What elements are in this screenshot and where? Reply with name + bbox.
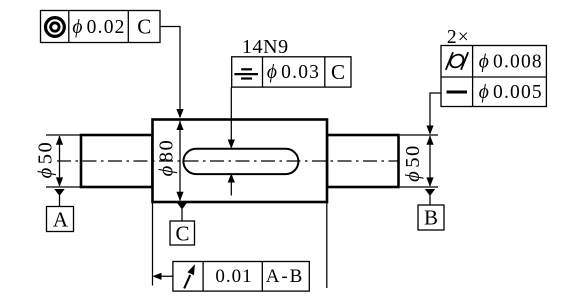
shaft left journal outline [81,135,153,187]
feature control frame 4 (circular runout) [173,262,309,292]
feature control frame 1 (concentricity) [41,11,161,43]
right φ50 dimension extension lines [400,134,438,136]
shaft center section outline [153,120,328,203]
datum C symbol [177,203,187,210]
cylindricity symbol [446,52,468,70]
svg-text:C: C [331,60,345,84]
keyway slot [183,149,298,174]
left φ50 dimension extension lines [46,134,81,136]
feature control frame 3 (cylindricity / straightness stacked) [441,46,546,107]
svg-text:14N9: 14N9 [242,36,289,58]
circular runout symbol [184,275,190,288]
svg-text:ϕ0.03: ϕ0.03 [267,62,320,83]
φ80 dimension line [179,121,181,201]
symmetry symbol [234,69,258,78]
right extension line below center section [326,203,328,288]
left extension line below center section [152,203,154,286]
svg-text:ϕ50: ϕ50 [402,144,424,182]
svg-text:B: B [424,206,438,230]
datum B symbol [425,189,435,196]
leader from frame 3 to right journal [430,93,441,134]
shaft right journal outline [327,135,399,187]
svg-text:A: A [53,208,69,232]
svg-text:ϕ80: ϕ80 [155,139,177,177]
leader from frame 1 to φ80 top edge [160,27,180,118]
keyway lower witness arrow [230,175,232,196]
svg-text:ϕ0.008: ϕ0.008 [479,52,543,73]
datum A symbol [54,189,64,196]
svg-text:C: C [175,222,189,246]
left φ50 dimension line [59,136,61,186]
svg-text:C: C [137,15,151,39]
svg-text:A-B: A-B [266,266,304,287]
svg-text:ϕ0.02: ϕ0.02 [72,17,125,38]
svg-text:ϕ0.005: ϕ0.005 [479,82,543,103]
centerline [57,160,400,162]
svg-text:0.01: 0.01 [215,266,252,287]
leader from frame 2 to keyway top [230,87,232,147]
concentricity symbol [46,18,65,37]
right φ50 dimension line [429,136,431,186]
leader arrow from runout frame to left extension line [154,275,173,277]
svg-text:ϕ50: ϕ50 [34,141,56,179]
feature control frame 2 (symmetry) [232,57,351,87]
straightness symbol [447,91,468,94]
